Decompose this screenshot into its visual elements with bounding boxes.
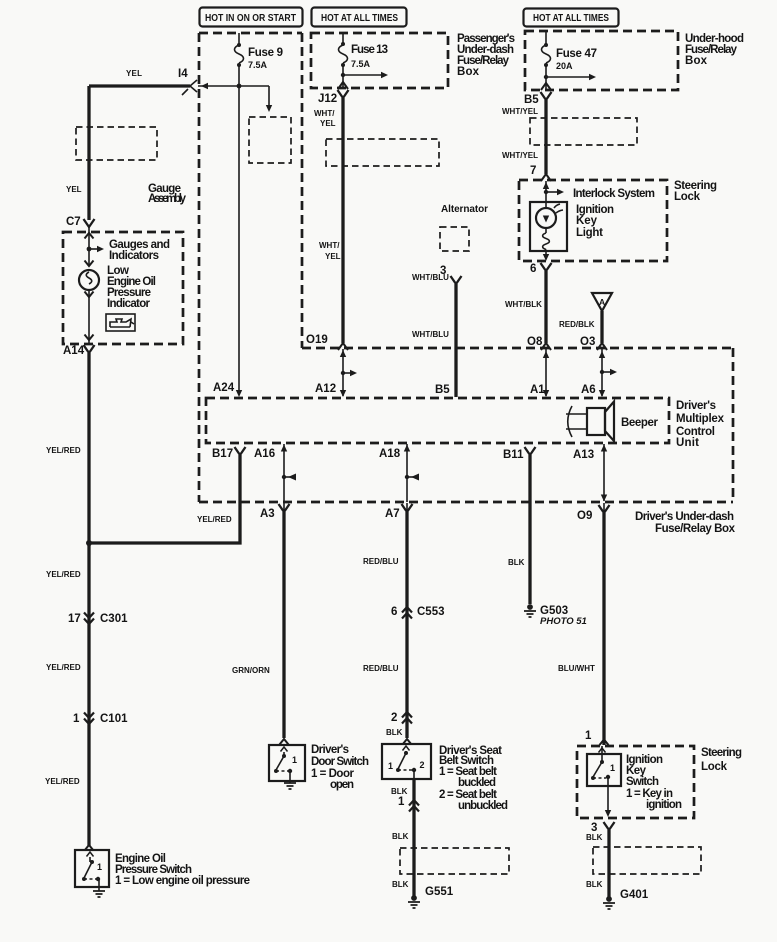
svg-text:O19: O19	[306, 334, 328, 346]
svg-text:YEL/RED: YEL/RED	[45, 777, 80, 786]
svg-text:B17: B17	[212, 448, 233, 460]
svg-text:Indicators: Indicators	[109, 250, 159, 262]
svg-text:Driver's: Driver's	[676, 400, 716, 412]
svg-text:open: open	[330, 779, 354, 791]
svg-text:WHT/BLK: WHT/BLK	[505, 300, 542, 309]
svg-text:WHT/: WHT/	[319, 241, 340, 250]
svg-text:BLK: BLK	[392, 880, 409, 889]
svg-text:BLU/WHT: BLU/WHT	[558, 664, 595, 673]
svg-text:17: 17	[68, 613, 81, 625]
svg-text:A3: A3	[260, 508, 275, 520]
svg-text:Driver's Under-dash: Driver's Under-dash	[635, 511, 734, 523]
svg-text:Fuse 9: Fuse 9	[248, 47, 283, 59]
svg-text:Multiplex: Multiplex	[676, 413, 725, 425]
svg-text:B5: B5	[435, 384, 450, 396]
svg-text:GRN/ORN: GRN/ORN	[232, 666, 270, 675]
svg-text:1 = Low engine oil pressure: 1 = Low engine oil pressure	[115, 875, 250, 887]
svg-text:unbuckled: unbuckled	[458, 800, 508, 812]
svg-text:B5: B5	[524, 94, 539, 106]
svg-text:O3: O3	[580, 336, 595, 348]
svg-text:20A: 20A	[556, 61, 573, 71]
svg-text:RED/BLK: RED/BLK	[559, 320, 595, 329]
svg-text:A24: A24	[213, 382, 235, 394]
svg-text:Fuse/Relay Box: Fuse/Relay Box	[655, 523, 736, 535]
svg-text:C553: C553	[417, 606, 445, 618]
svg-text:A16: A16	[254, 448, 275, 460]
svg-text:2: 2	[420, 760, 425, 770]
svg-text:1: 1	[398, 796, 405, 808]
svg-text:J12: J12	[318, 93, 337, 105]
svg-text:YEL/RED: YEL/RED	[46, 663, 81, 672]
svg-text:HOT AT ALL TIMES: HOT AT ALL TIMES	[321, 13, 398, 24]
svg-text:WHT/BLU: WHT/BLU	[412, 273, 449, 282]
svg-text:O9: O9	[577, 510, 592, 522]
svg-text:C101: C101	[100, 713, 128, 725]
svg-text:6: 6	[391, 606, 397, 618]
svg-text:C7: C7	[66, 216, 81, 228]
svg-text:Fuse 13: Fuse 13	[351, 44, 388, 56]
svg-text:Assembly: Assembly	[148, 193, 187, 205]
svg-text:YEL: YEL	[66, 185, 82, 194]
svg-text:ignition: ignition	[646, 799, 682, 811]
svg-text:Light: Light	[576, 227, 603, 239]
svg-text:A14: A14	[63, 345, 85, 357]
svg-text:PHOTO 51: PHOTO 51	[540, 616, 587, 627]
svg-text:WHT/BLU: WHT/BLU	[412, 330, 449, 339]
svg-text:Box: Box	[457, 66, 480, 78]
svg-text:C301: C301	[100, 613, 128, 625]
svg-text:YEL/RED: YEL/RED	[46, 570, 81, 579]
svg-text:BLK: BLK	[391, 787, 408, 796]
svg-text:A13: A13	[573, 449, 594, 461]
svg-text:Switch: Switch	[626, 776, 659, 788]
svg-text:1: 1	[97, 862, 102, 872]
svg-text:7: 7	[530, 165, 536, 177]
svg-text:O8: O8	[527, 336, 543, 348]
svg-text:1: 1	[73, 713, 80, 725]
svg-text:Lock: Lock	[674, 191, 701, 203]
svg-text:1: 1	[292, 755, 297, 765]
svg-text:A1: A1	[530, 384, 545, 396]
svg-text:HOT IN ON OR START: HOT IN ON OR START	[205, 13, 296, 24]
svg-text:Alternator: Alternator	[441, 204, 488, 215]
svg-text:WHT/: WHT/	[314, 109, 335, 118]
svg-text:WHT/YEL: WHT/YEL	[502, 107, 538, 116]
svg-text:HOT AT ALL TIMES: HOT AT ALL TIMES	[533, 13, 609, 24]
svg-text:YEL/RED: YEL/RED	[46, 446, 81, 455]
svg-text:YEL: YEL	[320, 119, 336, 128]
svg-text:G551: G551	[425, 886, 454, 898]
svg-text:Box: Box	[685, 55, 708, 67]
svg-text:Lock: Lock	[701, 761, 728, 773]
svg-text:Driver's: Driver's	[311, 744, 349, 756]
svg-text:1: 1	[388, 761, 393, 771]
svg-text:A: A	[599, 297, 605, 307]
svg-text:BLK: BLK	[386, 728, 403, 737]
svg-text:1: 1	[610, 763, 615, 773]
svg-text:RED/BLU: RED/BLU	[363, 664, 399, 673]
svg-text:Key: Key	[576, 215, 598, 227]
svg-text:buckled: buckled	[458, 777, 496, 789]
svg-text:1: 1	[585, 730, 592, 742]
svg-text:I4: I4	[178, 68, 188, 80]
svg-text:6: 6	[530, 263, 536, 275]
svg-text:A18: A18	[379, 448, 401, 460]
svg-text:BLK: BLK	[392, 832, 409, 841]
svg-text:YEL: YEL	[126, 69, 142, 78]
svg-text:Steering: Steering	[701, 747, 742, 759]
svg-text:Interlock System: Interlock System	[573, 188, 655, 200]
svg-text:BLK: BLK	[586, 833, 603, 842]
svg-text:A12: A12	[315, 383, 336, 395]
svg-text:BLK: BLK	[586, 880, 603, 889]
svg-text:Unit: Unit	[676, 437, 699, 449]
svg-text:Fuse 47: Fuse 47	[556, 48, 597, 60]
svg-text:YEL: YEL	[325, 252, 341, 261]
svg-text:WHT/YEL: WHT/YEL	[502, 151, 538, 160]
svg-text:2: 2	[391, 712, 397, 724]
svg-text:G401: G401	[620, 889, 649, 901]
svg-text:7.5A: 7.5A	[351, 59, 371, 69]
svg-text:YEL/RED: YEL/RED	[197, 515, 232, 524]
svg-text:A7: A7	[385, 508, 400, 520]
svg-text:Door Switch: Door Switch	[311, 756, 369, 768]
svg-text:Beeper: Beeper	[621, 417, 659, 429]
svg-text:A6: A6	[581, 384, 596, 396]
svg-text:RED/BLU: RED/BLU	[363, 557, 399, 566]
svg-text:7.5A: 7.5A	[248, 60, 268, 70]
svg-text:B11: B11	[503, 449, 524, 461]
svg-text:BLK: BLK	[508, 558, 525, 567]
svg-text:Indicator: Indicator	[107, 298, 151, 310]
